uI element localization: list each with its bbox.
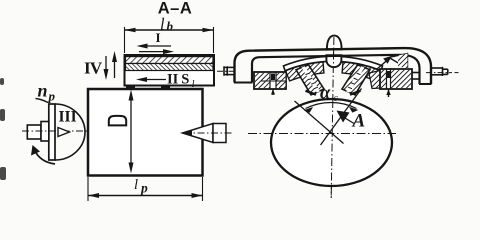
diameter D label (rotated) (109, 116, 126, 126)
driver plate ellipse arc (55, 104, 85, 160)
holder strip (284, 56, 383, 70)
vertical center line lower part (331, 100, 333, 198)
lp dimension line (88, 193, 203, 198)
left pivot stub (224, 66, 235, 75)
left stone segment (286, 62, 324, 81)
stone contact feet (126, 85, 135, 91)
right clamp block (380, 69, 412, 97)
bar lines across pin (326, 48, 343, 51)
adjusting wedge (389, 54, 408, 69)
angle line left (295, 101, 344, 144)
yoke arch inner (252, 55, 420, 84)
right stone segment (342, 62, 380, 81)
left jaw (296, 65, 324, 95)
tailstock center line (184, 132, 233, 134)
stone hatched band 1 (126, 57, 214, 64)
svg-text:b: b (167, 19, 174, 34)
yoke right end cap (419, 83, 432, 85)
diameter D dimension line (129, 90, 134, 174)
stone hatched band 2 (126, 64, 214, 71)
svg-text:p: p (140, 181, 148, 196)
motion I left arrow (137, 44, 172, 49)
rotation arrow np tail (36, 99, 49, 103)
left edge scan artifacts (0, 78, 6, 180)
svg-text:l: l (134, 177, 138, 193)
point A arrowhead (337, 111, 350, 123)
svg-text:n: n (38, 81, 48, 101)
svg-text:III: III (59, 109, 77, 126)
tailstock solid tip (183, 130, 193, 136)
oscillation IV up arrow (112, 51, 117, 78)
wedge force arrow (377, 56, 393, 70)
left clamp block (254, 72, 286, 95)
motion I right arrow (139, 49, 174, 54)
svg-text:α: α (320, 84, 331, 104)
center line through pin (332, 37, 335, 66)
driver plate disc edge (49, 104, 55, 160)
right jaw (342, 65, 370, 95)
right pivot stub (412, 67, 448, 79)
stone block outline (125, 55, 215, 86)
svg-text:IV: IV (84, 59, 103, 78)
svg-text:c: c (334, 93, 339, 104)
workpiece cylinder (88, 89, 203, 176)
workpiece circle (271, 99, 392, 186)
horizontal center line (248, 133, 396, 135)
lp extension lines (88, 177, 203, 201)
spindle center line (22, 130, 88, 132)
vertical center line (331, 36, 334, 198)
filler wedge right (369, 71, 380, 89)
svg-text:I: I (155, 30, 160, 45)
svg-text:p: p (48, 89, 56, 104)
pivot pin top dome (327, 36, 342, 50)
svg-text:A: A (352, 111, 366, 132)
yoke arch outer (235, 48, 432, 84)
oscillation IV down arrow (104, 56, 109, 80)
pivot pin capsule bottom (326, 55, 341, 67)
yoke left end cap (234, 82, 253, 84)
rotation arrow np head (35, 150, 56, 164)
spindle chuck rects (27, 125, 41, 139)
angle arc with arrows (306, 102, 357, 108)
svg-text:II S: II S (167, 72, 189, 88)
left center tip (58, 128, 70, 137)
feed II Sl arrow (136, 77, 166, 82)
dimension lb line with arrows (125, 27, 214, 53)
angle line right (321, 89, 362, 146)
tailstock center cone (183, 124, 227, 143)
